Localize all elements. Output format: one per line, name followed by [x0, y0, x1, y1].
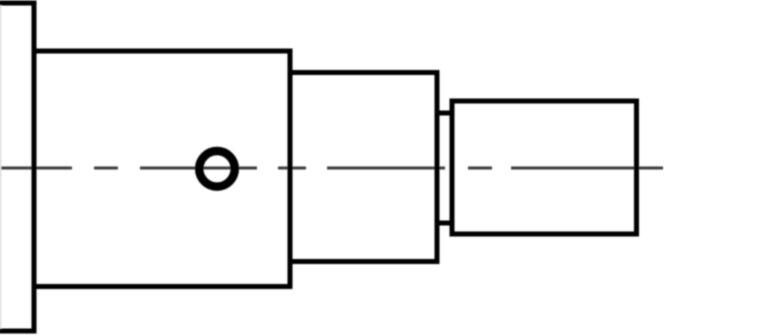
shaft section 4 (right stub): [452, 101, 637, 234]
hole (small circle) in section 2: [199, 151, 235, 187]
neck / groove between section 3 and 4: [437, 113, 452, 223]
shaft section 1 (leftmost collar, cut off at left): [0, 3, 34, 331]
centerline (dashed axis): [0, 167, 663, 170]
shaft section 2 (large block with hole): [34, 51, 290, 287]
shaft section 3: [290, 73, 437, 262]
faint left edge of shaft section 1: [0, 3, 2, 331]
